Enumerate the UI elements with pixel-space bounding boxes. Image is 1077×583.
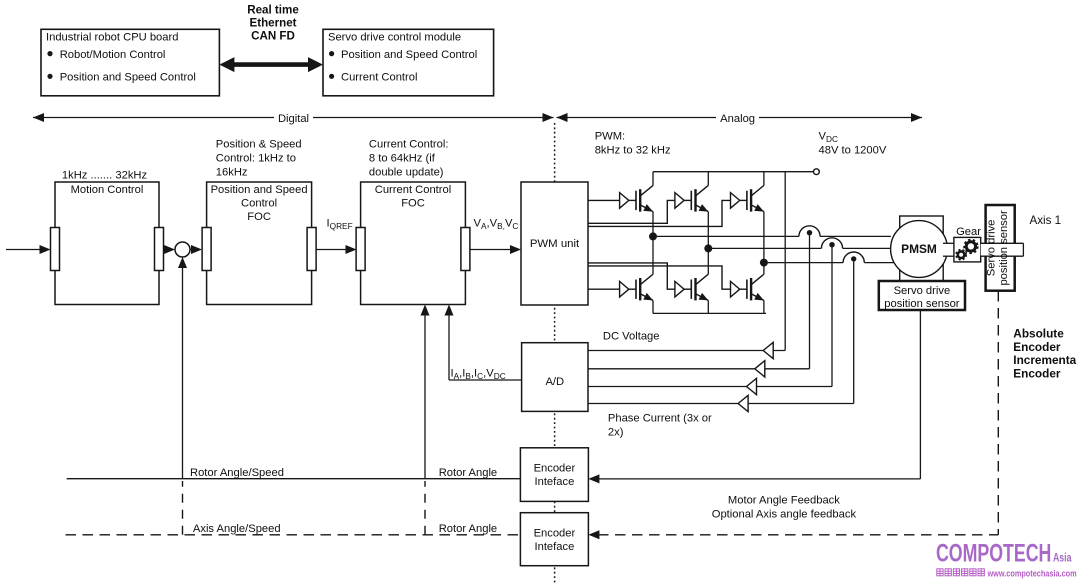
svg-text:FOC: FOC	[247, 211, 271, 223]
svg-text:DC Voltage: DC Voltage	[603, 331, 660, 343]
wire: CS1 measurement line to A/D	[588, 233, 810, 369]
svg-text:Rotor Angle: Rotor Angle	[439, 467, 497, 479]
label: VA,VB,VC	[474, 218, 519, 231]
wire: dashed riser to current control branch	[424, 481, 426, 535]
label: Rotor Angle/Speed	[190, 467, 284, 479]
svg-text:Robot/Motion Control: Robot/Motion Control	[60, 49, 166, 61]
wire: phase A line to motor	[653, 235, 891, 237]
label: VDC 48V to 1200V	[819, 131, 887, 157]
svg-text:Axis Angle/Speed: Axis Angle/Speed	[193, 523, 281, 535]
label: Rotor Angle (axis encoder)	[439, 523, 497, 535]
transistor Q1 (IGBT)	[636, 172, 655, 237]
svg-text:PWM unit: PWM unit	[530, 238, 580, 250]
terminal: VDC positive terminal	[814, 169, 820, 175]
gate driver Q3D	[675, 193, 691, 209]
port: Current Control output bar	[461, 228, 470, 271]
node: phase A junction	[649, 232, 657, 240]
svg-text:Inteface: Inteface	[534, 476, 574, 488]
label: IA,IB,IC,VDC	[451, 368, 506, 381]
svg-text:Current Control:: Current Control:	[369, 138, 449, 150]
label: 1kHz ....... 32kHz	[62, 169, 148, 181]
wire: VA VB VC command to PWM unit	[470, 245, 521, 254]
wire: phase C line to motor	[764, 262, 894, 264]
wire: rotor angle feedback rising into Current Control	[421, 305, 430, 479]
svg-text:Real time: Real time	[247, 3, 299, 16]
motor M1: PMSM frame	[900, 216, 944, 282]
label: Real time Ethernet CAN FD	[247, 3, 299, 42]
motor M1: PMSM	[891, 221, 948, 278]
svg-text:position sensor: position sensor	[884, 298, 960, 310]
svg-text:Servo drive: Servo drive	[986, 220, 998, 277]
block: Current Control FOC	[361, 182, 466, 305]
amplifier A4	[738, 395, 748, 411]
wire: phase B line to motor	[708, 247, 891, 249]
transistor Q2 (IGBT)	[636, 236, 655, 313]
svg-text:CAN FD: CAN FD	[251, 29, 295, 42]
svg-text:A/D: A/D	[545, 376, 564, 388]
sensor CS3: phase current sensor	[843, 252, 864, 264]
label: Motor Angle Feedback / Optional Axis angle feedback	[712, 494, 857, 520]
wire: dashed riser to summing node branch	[182, 481, 184, 535]
svg-text:Ethernet: Ethernet	[249, 16, 296, 29]
svg-text:COMPOTECH: COMPOTECH	[936, 538, 1051, 567]
svg-text:Industrial robot CPU board: Industrial robot CPU board	[46, 31, 178, 43]
wire: thick bidirectional link between CPU board and servo module	[219, 57, 323, 72]
svg-text:Encoder: Encoder	[534, 463, 576, 475]
node: phase B junction	[704, 244, 712, 252]
svg-text:Analog: Analog	[720, 113, 755, 125]
label: Current Control rate note	[369, 138, 449, 178]
wire: IQREF signal to Current Control	[316, 245, 357, 254]
amplifier A2	[755, 361, 765, 377]
wire: axis angle/speed feedback line (dashed)	[66, 534, 521, 536]
block: A/D converter	[522, 343, 588, 412]
port: Position control output bar	[307, 228, 316, 271]
transistor Q4 (IGBT)	[691, 248, 710, 313]
block: Position and Speed Control FOC	[207, 182, 312, 305]
wire: PWM gate drive to Q5	[588, 200, 731, 226]
label: Rotor Angle (motor encoder)	[439, 467, 497, 479]
wire: PWM gate drive to Q3	[588, 200, 675, 223]
port: Motion Control input bar	[51, 228, 60, 271]
amplifier A1	[763, 342, 773, 358]
block: Industrial robot CPU board	[41, 29, 219, 96]
wire: CS2 measurement line to A/D	[588, 245, 832, 387]
transistor Q5 (IGBT)	[747, 172, 766, 263]
block: Gear	[954, 226, 981, 262]
port: Motion Control output bar	[155, 228, 164, 271]
wire: rotor angle/speed feedback line	[67, 478, 521, 480]
label: Servo drive position sensor (rotated text)	[986, 210, 1011, 286]
block: Servo drive control module	[323, 29, 494, 96]
svg-text:16kHz: 16kHz	[216, 166, 248, 178]
wire: DC+ top rail	[653, 171, 814, 173]
wire: PWM gate drive to Q1	[588, 199, 620, 201]
label: Phase Current (3x or 2x)	[608, 413, 712, 439]
label: Position &amp; Speed Control rate note	[216, 138, 302, 178]
wire: PWM gate drive to Q2	[588, 288, 620, 290]
wire: rotor feedback rising into summing node	[178, 257, 187, 479]
wire: emitter bottom rail	[653, 312, 766, 314]
svg-text:Digital: Digital	[278, 113, 309, 125]
svg-text:Encoder: Encoder	[1013, 340, 1061, 354]
wire: PWM gate drive to Q4	[588, 263, 675, 289]
svg-text:Servo drive: Servo drive	[894, 285, 951, 297]
svg-text:www.compotechasia.com: www.compotechasia.com	[987, 567, 1077, 578]
svg-text:Asia: Asia	[1053, 552, 1072, 564]
svg-text:Control: 1kHz to: Control: 1kHz to	[216, 152, 296, 164]
svg-text:Optional Axis angle feedback: Optional Axis angle feedback	[712, 508, 857, 520]
svg-text:Control: Control	[241, 197, 277, 209]
wire: CS3 measurement line to A/D	[588, 259, 854, 404]
svg-text:48V to 1200V: 48V to 1200V	[819, 145, 887, 157]
transistor Q6 (IGBT)	[747, 263, 766, 314]
label: Axis Angle/Speed	[193, 523, 281, 535]
port: Position control input bar	[202, 228, 211, 271]
svg-text:Axis 1: Axis 1	[1030, 214, 1062, 227]
svg-text:Rotor Angle: Rotor Angle	[439, 523, 497, 535]
svg-text:8kHz to 32 kHz: 8kHz to 32 kHz	[595, 145, 671, 157]
svg-text:Motor Angle Feedback: Motor Angle Feedback	[728, 494, 840, 506]
svg-text:Incremental: Incremental	[1013, 353, 1077, 367]
svg-text:PWM:: PWM:	[595, 131, 625, 143]
logo: COMPOTECH Asia	[936, 538, 1072, 567]
block: Encoder Inteface (motor)	[520, 448, 588, 502]
svg-text:Phase Current (3x or: Phase Current (3x or	[608, 413, 712, 425]
label: PWM switching frequency	[595, 131, 671, 157]
svg-text:Encoder: Encoder	[1013, 367, 1061, 381]
wire: IA IB IC VDC feedback from A/D to Current Control	[445, 305, 522, 381]
sensor: Servo drive position sensor (motor)	[879, 281, 965, 310]
label: IQREF	[327, 218, 353, 231]
svg-text:Rotor Angle/Speed: Rotor Angle/Speed	[190, 467, 284, 479]
svg-text:position sensor: position sensor	[998, 210, 1010, 286]
block: PWM unit	[521, 182, 588, 305]
amplifier A3	[747, 378, 757, 394]
node: summing junction	[175, 242, 190, 257]
svg-text:PMSM: PMSM	[901, 242, 937, 256]
label: Axis 1	[1030, 214, 1062, 227]
svg-text:1kHz ....... 32kHz: 1kHz ....... 32kHz	[62, 169, 148, 181]
wire: VDC sense line down to A/D	[588, 172, 785, 351]
wire: summing node to Position and Speed Control	[190, 245, 202, 254]
svg-text:2x): 2x)	[608, 427, 624, 439]
gate driver Q5D	[731, 193, 747, 209]
sensor CS1: phase current sensor	[799, 226, 820, 238]
svg-text:Absolute: Absolute	[1013, 326, 1064, 340]
svg-text:Current Control: Current Control	[375, 184, 451, 196]
shaft: motor to gear	[943, 243, 954, 256]
svg-text:double update): double update)	[369, 166, 444, 178]
svg-text:Position and Speed Control: Position and Speed Control	[60, 72, 196, 84]
gear icon: small cog	[957, 250, 966, 259]
svg-text:Motion Control: Motion Control	[71, 184, 144, 196]
wire: Motion Control to summing node	[164, 245, 176, 254]
net divider dotted line (digital/analog boundary)	[554, 123, 556, 583]
wire: Analog domain span arrow	[557, 111, 923, 125]
wire: setpoint input arrow	[6, 245, 51, 254]
transistor Q3 (IGBT)	[691, 172, 710, 249]
svg-text:Gear: Gear	[956, 226, 981, 238]
gear icon: large cog	[965, 240, 977, 252]
svg-text:Inteface: Inteface	[534, 541, 574, 553]
gate driver Q1D	[620, 193, 636, 209]
gate driver Q6D	[731, 281, 747, 297]
svg-text:Position & Speed: Position & Speed	[216, 138, 302, 150]
shaft: gear output through axis sensor	[981, 243, 1024, 256]
svg-text:FOC: FOC	[401, 197, 425, 209]
gate driver Q2D	[620, 281, 636, 297]
svg-text:Encoder: Encoder	[534, 527, 576, 539]
svg-text:8 to 64kHz (if: 8 to 64kHz (if	[369, 152, 436, 164]
svg-text:VA,VB,VC: VA,VB,VC	[474, 218, 519, 231]
label: Absolute Encoder / Incremental Encoder	[1013, 326, 1077, 380]
sensor: axis position sensor housing (rotated)	[986, 205, 1015, 291]
wire: axis angle feedback from axis sensor (dashed)	[588, 291, 998, 539]
node: phase C junction	[760, 259, 768, 267]
logo: tagline	[937, 567, 1077, 578]
svg-text:Position and Speed: Position and Speed	[211, 184, 308, 196]
gate driver Q4D	[675, 281, 691, 297]
wire: Digital domain span arrow	[33, 111, 554, 125]
port: Current Control input bar	[356, 228, 365, 271]
label: DC Voltage	[603, 331, 660, 343]
svg-text:Position and Speed Control: Position and Speed Control	[341, 49, 477, 61]
svg-text:Current Control: Current Control	[341, 72, 417, 84]
sensor CS2: phase current sensor	[821, 238, 842, 250]
wire: motor angle feedback from sensor to encoder interface	[588, 310, 920, 483]
block: Encoder Inteface (axis)	[520, 513, 588, 566]
svg-text:Servo drive control module: Servo drive control module	[328, 31, 461, 43]
wire: PWM gate drive to Q6	[588, 266, 731, 289]
block: Motion Control	[55, 182, 159, 305]
